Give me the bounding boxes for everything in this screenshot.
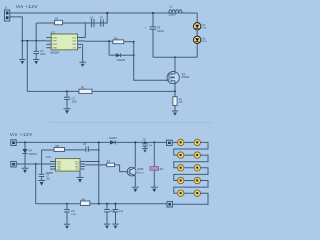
LED D11 [194, 165, 200, 171]
connector JP6 [167, 202, 173, 207]
wire [26, 41, 28, 92]
wire pin1 riser [84, 23, 86, 38]
capacitor C1 [33, 23, 46, 59]
transistor Q1 [167, 72, 190, 84]
resistor R5 [42, 144, 65, 152]
pin 4 [50, 168, 56, 170]
svg-text:100uF: 100uF [157, 30, 164, 33]
node R2 [98, 161, 100, 163]
node F [108, 40, 110, 42]
wire top rail [10, 12, 197, 14]
wire [124, 41, 134, 43]
pin 7 [78, 43, 83, 45]
capacitor C10 [104, 204, 115, 224]
inductor L1 [168, 4, 182, 16]
capacitor C9 [64, 204, 77, 224]
resistor R6 [80, 197, 89, 205]
wire [153, 56, 197, 58]
svg-text:R6: R6 [82, 197, 86, 201]
capacitor C4 [145, 13, 165, 57]
LED D10 [178, 165, 184, 171]
svg-text:DISC: DISC [52, 37, 57, 39]
svg-text:TRIG: TRIG [52, 44, 57, 46]
svg-text:Q1: Q1 [182, 72, 186, 76]
node M [35, 163, 37, 165]
node B [106, 12, 108, 14]
svg-text:R5: R5 [56, 144, 60, 148]
LED D7 [194, 139, 200, 145]
node R3b [98, 141, 100, 143]
wire IC2 ground [79, 171, 81, 177]
svg-text:NE555P: NE555P [50, 51, 59, 54]
resistor R4 [113, 37, 124, 44]
wire base [115, 165, 130, 172]
pin 1 [50, 161, 56, 163]
wire feedback [85, 161, 99, 163]
svg-text:L1: L1 [170, 4, 174, 8]
connector JP4 [11, 161, 16, 167]
ground [172, 111, 178, 116]
node D [21, 40, 23, 42]
LED D14 [178, 190, 184, 196]
wire [85, 40, 113, 42]
pin 2 [46, 40, 51, 42]
ground [79, 62, 85, 67]
wire left boundary [35, 164, 37, 204]
wire drain [174, 57, 176, 74]
svg-text:100u: 100u [71, 214, 77, 216]
svg-text:IC1: IC1 [51, 30, 56, 34]
node K [66, 90, 68, 92]
capacitor C3 [64, 91, 77, 108]
wire bottom rail [27, 90, 175, 92]
svg-text:IRF540: IRF540 [182, 77, 190, 79]
wire ground rail bottom [36, 203, 167, 205]
connector JP3 [11, 140, 16, 146]
capacitor C2 [90, 16, 94, 27]
pin 5 [80, 161, 85, 163]
wire [196, 44, 198, 58]
pin 5 [78, 37, 86, 39]
resistor R8 [140, 142, 164, 187]
separator line [49, 122, 212, 124]
resistor R3 [173, 91, 184, 110]
ground [142, 149, 148, 153]
svg-text:Vin +12V: Vin +12V [16, 4, 39, 10]
wire [196, 13, 198, 23]
svg-text:LED: LED [202, 28, 207, 30]
svg-text:IC2: IC2 [47, 155, 52, 159]
svg-text:1N4148: 1N4148 [117, 59, 126, 62]
svg-text:THR: THR [52, 41, 57, 43]
ground [98, 149, 100, 151]
pin 1 [46, 37, 51, 39]
LED D9 [194, 152, 200, 158]
wire pin4 to ground [82, 44, 84, 62]
svg-text:1N4742: 1N4742 [29, 154, 38, 156]
node L [24, 141, 26, 143]
svg-text:100n: 100n [40, 53, 46, 56]
wire [22, 40, 46, 42]
node G [133, 41, 135, 43]
svg-text:BC337: BC337 [137, 172, 144, 174]
ground [104, 224, 110, 229]
node S [106, 203, 108, 205]
svg-text:100n: 100n [72, 100, 78, 103]
capacitor C8 [142, 138, 153, 148]
wire pin2 to ground [10, 17, 22, 59]
LED D6 [178, 139, 184, 145]
LED D15 [194, 190, 200, 196]
svg-text:GND: GND [57, 169, 62, 171]
pin 8 [80, 168, 85, 170]
LED D2 [194, 23, 207, 30]
capacitor C11 [113, 204, 124, 224]
svg-text:R1: R1 [81, 85, 85, 89]
wire gate [134, 42, 169, 80]
resistor R7 [107, 159, 115, 166]
svg-text:CTL: CTL [75, 169, 79, 171]
capacitor C7 [39, 150, 51, 180]
pin 2 [50, 163, 56, 165]
svg-text:LED: LED [202, 41, 207, 43]
pin 3 [50, 166, 56, 168]
capacitor C6 [65, 143, 99, 152]
wire source [174, 81, 176, 92]
resistor R1 [79, 85, 92, 93]
connector J1 [4, 5, 10, 21]
ground [19, 60, 25, 65]
wire supply rail bottom [16, 141, 166, 143]
wire emitter [134, 176, 136, 187]
node J [174, 90, 176, 92]
diode D5 [109, 138, 118, 145]
diode D1 [109, 53, 134, 62]
pin 8 [78, 47, 82, 49]
svg-text:GND: GND [52, 48, 57, 50]
ground [38, 181, 45, 186]
diode D2 [55, 17, 63, 25]
ground [64, 109, 71, 114]
connector JP5 [167, 140, 173, 145]
node R [98, 203, 100, 205]
svg-text:VCC: VCC [72, 37, 77, 39]
wire [16, 163, 50, 165]
LED D12 [178, 177, 184, 183]
LED D8 [178, 152, 184, 158]
transistor Q2 [127, 167, 144, 176]
svg-text:100uH: 100uH [168, 14, 175, 17]
LED D13 [194, 177, 200, 183]
svg-text:R4: R4 [114, 37, 118, 41]
node P [153, 141, 155, 143]
pin 3 [46, 43, 51, 45]
ground [77, 178, 84, 183]
pin 7 [80, 166, 85, 168]
node E2 [26, 40, 28, 42]
node N [134, 141, 136, 143]
svg-text:NE555: NE555 [46, 172, 54, 175]
ground [33, 60, 39, 65]
wire [196, 30, 198, 36]
pin 6 [80, 163, 85, 165]
wire collector [134, 142, 136, 167]
pin 6 [78, 40, 85, 42]
wire [36, 13, 107, 23]
svg-text:R7: R7 [107, 159, 111, 163]
node H [133, 54, 135, 56]
node Q [66, 203, 68, 205]
svg-text:C11: C11 [119, 210, 124, 213]
ground [151, 187, 158, 192]
wire LED serpentine [172, 142, 208, 204]
pin 4 [46, 47, 51, 49]
ground [132, 187, 139, 192]
node O [144, 141, 146, 143]
node E [35, 40, 37, 42]
wire [85, 164, 107, 166]
ground [112, 224, 118, 229]
wire [108, 41, 110, 55]
ground [22, 168, 29, 173]
node T [115, 203, 117, 205]
op-amp U1 [50, 30, 77, 54]
capacitor C5 [100, 17, 104, 27]
svg-text:Vin +12V: Vin +12V [10, 132, 33, 138]
LED D3 [194, 36, 207, 43]
node C [152, 12, 154, 14]
ground [64, 224, 70, 229]
wire discharge column [98, 142, 100, 203]
svg-text:1N4007: 1N4007 [109, 138, 118, 140]
node I [174, 56, 176, 58]
op-amp U2 [46, 155, 80, 175]
zener D4 [22, 142, 37, 168]
